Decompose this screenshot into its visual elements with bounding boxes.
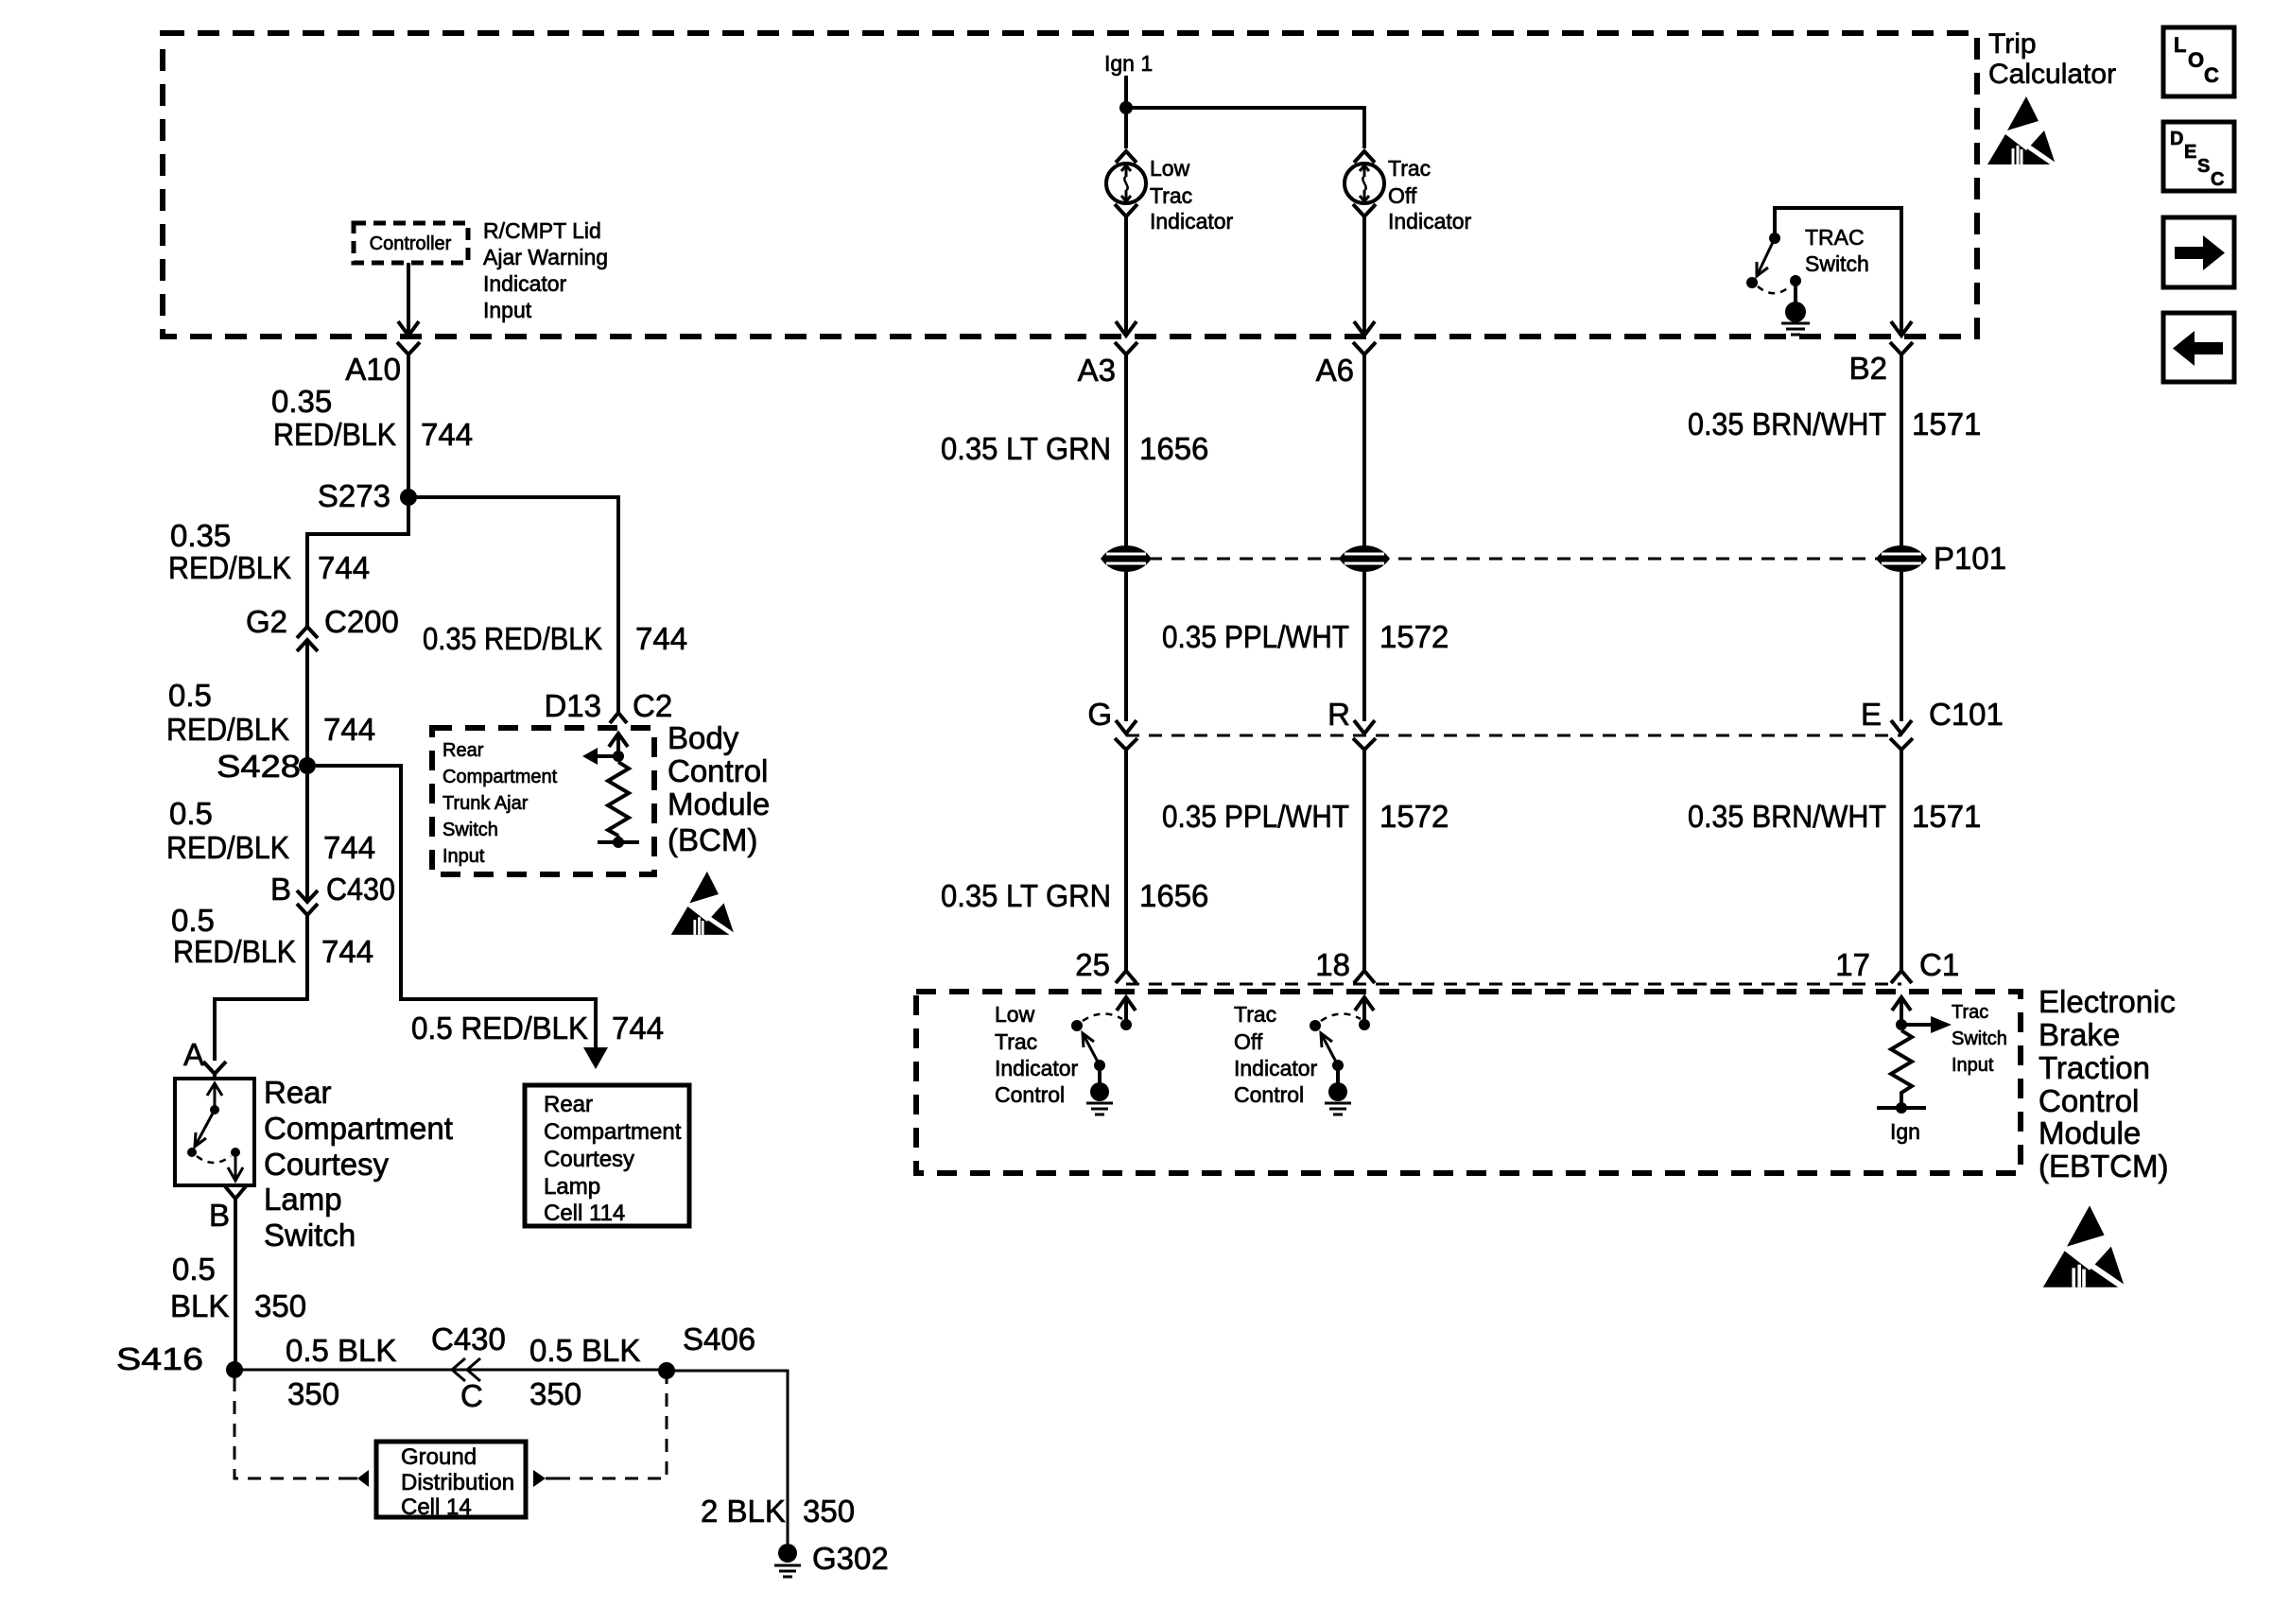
icon right arrow box (2163, 217, 2234, 287)
arrowhead at G (1116, 720, 1136, 734)
connector Y above pin 18 (1354, 971, 1375, 983)
svg-text:0.5 BLK: 0.5 BLK (286, 1333, 396, 1368)
lamp switch dashed throw arc (197, 1156, 231, 1163)
ESD symbol (BCM) (671, 872, 737, 938)
svg-text:Rear: Rear (544, 1092, 593, 1117)
arrowhead at E (1891, 720, 1912, 734)
connector Y below C101 at G (1115, 738, 1137, 762)
svg-text:0.35 PPL/WHT: 0.35 PPL/WHT (1162, 799, 1349, 834)
connector Y below Low Trac lamp (1115, 204, 1137, 230)
label B C430 (270, 872, 395, 907)
svg-text:S416: S416 (116, 1341, 203, 1376)
svg-text:Ign: Ign (1890, 1119, 1920, 1144)
svg-text:1572: 1572 (1379, 619, 1449, 654)
label 0.5 RED/BLK 744 (above S428) (166, 678, 375, 747)
label Body Control Module (BCM) (668, 720, 770, 857)
svg-text:L: L (2174, 33, 2186, 57)
label 0.35 RED/BLK 744 (BCM branch) (423, 621, 687, 656)
svg-text:C430: C430 (326, 872, 395, 907)
svg-text:S273: S273 (318, 478, 390, 513)
Rear Compartment Courtesy Lamp Cell 114 box (525, 1085, 689, 1226)
BCM junction dot (613, 751, 624, 762)
svg-text:BLK: BLK (170, 1288, 229, 1323)
svg-text:744: 744 (323, 712, 375, 747)
svg-text:Lamp: Lamp (264, 1182, 342, 1217)
grommet P101 at A3 wire (1101, 545, 1152, 572)
svg-text:Input: Input (1952, 1055, 1994, 1076)
wire Ign 1 down (1124, 76, 1128, 148)
svg-text:(EBTCM): (EBTCM) (2039, 1149, 2168, 1183)
label Trac Off Indicator (1388, 156, 1472, 233)
svg-text:Module: Module (668, 786, 770, 821)
svg-text:Ground: Ground (401, 1444, 477, 1470)
grommet P101 at A6 wire (1339, 545, 1390, 572)
label Trac Switch Input (1952, 1002, 2007, 1076)
wire A3 P101 to C101 (1124, 572, 1128, 721)
connector Y below C101 at E (1890, 738, 1913, 762)
svg-text:1572: 1572 (1379, 799, 1449, 834)
svg-text:Controller: Controller (370, 233, 452, 254)
svg-text:E: E (1861, 697, 1882, 732)
svg-text:G: G (1087, 697, 1112, 732)
low trac switch stub dot (1120, 1019, 1132, 1030)
svg-text:17: 17 (1835, 947, 1870, 982)
lamp switch output arrow down (228, 1152, 243, 1181)
svg-text:Compartment: Compartment (264, 1111, 453, 1146)
trac switch input arrow right (1901, 1016, 1952, 1033)
svg-text:1656: 1656 (1139, 878, 1208, 913)
label 0.35 RED/BLK 744 (A10) (271, 384, 473, 452)
connector Y above Trac Off lamp (1354, 151, 1375, 163)
svg-text:R/CMPT Lid: R/CMPT Lid (483, 218, 601, 243)
connector Y below Trac Off lamp (1353, 204, 1376, 230)
svg-text:RED/BLK: RED/BLK (173, 934, 296, 969)
svg-text:Trac: Trac (1150, 183, 1192, 208)
BCM resistor bottom node (598, 836, 639, 848)
label Rear Compartment Courtesy Lamp Cell 114 (544, 1092, 682, 1226)
svg-text:Trac: Trac (1234, 1002, 1276, 1027)
svg-text:S428: S428 (217, 749, 301, 784)
dashed wire S416 to ground distribution (234, 1378, 346, 1478)
TRAC switch contact dot (1746, 277, 1758, 288)
lamp Low Trac Indicator (1106, 164, 1146, 203)
label 0.5 BLK 350 (left segment) (286, 1333, 396, 1411)
svg-text:350: 350 (254, 1288, 306, 1323)
svg-text:350: 350 (529, 1376, 581, 1411)
svg-text:D13: D13 (544, 688, 601, 723)
wire B to S416 (234, 1199, 237, 1363)
svg-text:Body: Body (668, 720, 739, 755)
EBTCM dashed box (916, 992, 2021, 1173)
svg-text:C430: C430 (431, 1322, 506, 1356)
svg-text:RED/BLK: RED/BLK (168, 550, 291, 585)
svg-text:Switch: Switch (442, 820, 498, 840)
svg-text:Traction: Traction (2039, 1050, 2150, 1085)
label Trip Calculator (1988, 28, 2116, 90)
label Electronic Brake Traction Control Module (EBTCM) (2039, 984, 2176, 1183)
svg-text:Courtesy: Courtesy (264, 1147, 390, 1182)
arrowhead at A3 (1116, 321, 1136, 336)
ground G302 (774, 1544, 801, 1577)
svg-text:2 BLK: 2 BLK (701, 1494, 786, 1529)
low trac switch left contact dot (1071, 1020, 1083, 1031)
lamp switch right contact dot (231, 1148, 240, 1157)
svg-text:Calculator: Calculator (1988, 59, 2116, 90)
pin 17 stub arrow (1892, 997, 1911, 1025)
svg-text:Indicator: Indicator (1234, 1056, 1318, 1080)
label 0.35 BRN/WHT 1571 (upper) (1688, 406, 1981, 441)
svg-text:C101: C101 (1929, 697, 2004, 732)
label 0.5 RED/BLK 744 (cell branch) (411, 1011, 664, 1045)
label 0.35 LT GRN 1656 (lower) (941, 878, 1208, 913)
svg-text:D: D (2170, 129, 2183, 149)
connector C430 (inline ground wire) (452, 1358, 480, 1381)
trac off switch pivot and plunger (1328, 1060, 1347, 1101)
svg-text:18: 18 (1315, 947, 1350, 982)
svg-text:A10: A10 (345, 352, 401, 387)
wire C200 to S428 (305, 640, 309, 758)
connector line C1 (1126, 983, 1901, 986)
svg-text:0.5: 0.5 (171, 903, 215, 938)
wire B2 P101 to C101 (1900, 572, 1903, 721)
svg-text:Trunk Ajar: Trunk Ajar (442, 793, 529, 814)
connector Y at pin C2 (610, 713, 627, 723)
svg-text:Ign 1: Ign 1 (1104, 51, 1153, 76)
svg-text:Module: Module (2039, 1115, 2141, 1150)
label 0.5 RED/BLK 744 (above C430) (166, 796, 375, 865)
low trac switch pivot and plunger (1090, 1060, 1109, 1101)
svg-text:Compartment: Compartment (442, 767, 558, 787)
low trac switch arm (1083, 1033, 1100, 1065)
connector Y below C101 at R (1353, 738, 1376, 762)
wire G to pin 25 (1124, 762, 1128, 971)
icon LOC box (2163, 27, 2234, 96)
svg-text:Input: Input (483, 298, 532, 322)
arrowhead at A6 (1354, 321, 1375, 336)
wire S273 jog down-left (307, 506, 408, 627)
connector line C101 (1126, 734, 1901, 737)
svg-text:Low: Low (1150, 156, 1190, 181)
lamp Trac Off Indicator (1345, 164, 1384, 203)
svg-text:1571: 1571 (1912, 799, 1981, 834)
svg-text:Compartment: Compartment (544, 1119, 682, 1145)
svg-text:RED/BLK: RED/BLK (166, 830, 289, 865)
svg-text:0.35 RED/BLK: 0.35 RED/BLK (423, 621, 602, 656)
label 0.5 BLK 350 (170, 1252, 306, 1323)
svg-text:TRAC: TRAC (1805, 225, 1865, 250)
svg-text:RED/BLK: RED/BLK (166, 712, 289, 747)
svg-text:25: 25 (1075, 947, 1110, 982)
svg-text:744: 744 (635, 621, 687, 656)
svg-text:Low: Low (995, 1002, 1035, 1027)
label 0.35 BRN/WHT 1571 (lower) (1688, 799, 1981, 834)
label 0.35 LT GRN 1656 (upper) (941, 431, 1208, 466)
svg-text:A3: A3 (1078, 353, 1116, 388)
resistor (BCM trunk ajar input) (608, 762, 629, 836)
svg-text:Trac: Trac (1388, 156, 1431, 181)
connector Y at pin A (203, 1062, 226, 1079)
svg-text:744: 744 (318, 550, 370, 585)
svg-text:744: 744 (421, 417, 473, 452)
TRAC switch arm (1757, 238, 1775, 276)
wire Controller to A10 (407, 263, 410, 333)
svg-text:Trip: Trip (1988, 28, 2037, 60)
svg-text:744: 744 (612, 1011, 664, 1045)
wire S428 to C430 (305, 774, 309, 902)
svg-text:0.35 PPL/WHT: 0.35 PPL/WHT (1162, 619, 1349, 654)
svg-text:B2: B2 (1849, 351, 1887, 386)
connector C200 (Y and arrow up) (297, 627, 318, 651)
svg-text:0.35 BRN/WHT: 0.35 BRN/WHT (1688, 799, 1886, 834)
svg-text:C200: C200 (324, 604, 399, 639)
svg-text:O: O (2188, 48, 2204, 72)
connector Y at pin A6 (1353, 342, 1376, 368)
svg-text:744: 744 (323, 830, 375, 865)
svg-text:Trac: Trac (995, 1029, 1037, 1054)
wire C430 to lamp switch jog (215, 915, 307, 1061)
connector Y above pin 25 (1116, 971, 1136, 983)
Controller dashed box (354, 223, 468, 263)
svg-text:Control: Control (668, 753, 768, 788)
arrowhead at A10 (398, 321, 419, 336)
connector Y at pin A3 (1115, 342, 1137, 368)
connector C430 (arrow down and Y) (297, 890, 318, 915)
junction dot Ign 1 (1119, 101, 1133, 114)
Rear Compartment Courtesy Lamp Switch box (175, 1079, 254, 1185)
svg-text:0.5: 0.5 (168, 678, 212, 713)
dashed wire S406 to ground distribution (557, 1378, 667, 1478)
svg-text:Switch: Switch (264, 1218, 356, 1253)
grommet P101 at B2 wire (1876, 545, 1927, 572)
svg-text:0.35: 0.35 (271, 384, 332, 419)
svg-text:Rear: Rear (264, 1075, 332, 1110)
svg-text:B: B (270, 872, 291, 907)
svg-text:Ajar Warning: Ajar Warning (483, 245, 608, 269)
svg-text:C: C (2211, 169, 2224, 190)
label Low Trac Indicator Control (995, 1002, 1079, 1107)
svg-text:C2: C2 (633, 688, 672, 723)
splice S428 (299, 757, 316, 774)
branch S428 to courtesy lamp cell (316, 766, 596, 1051)
svg-text:Control: Control (1234, 1082, 1304, 1107)
pin 18 stub arrow (1355, 997, 1374, 1022)
trac switch input junction dot (1896, 1019, 1907, 1030)
wire R to pin 18 (1362, 762, 1366, 971)
label Trac Off Indicator Control (1234, 1002, 1318, 1107)
svg-text:Input: Input (442, 846, 485, 867)
trac off switch dashed arc (1321, 1013, 1361, 1021)
connector Y at pin B (225, 1186, 246, 1199)
splice S273 (400, 489, 417, 506)
TRAC switch ground (1781, 323, 1810, 335)
wire A6 inside trip calc (1362, 230, 1366, 333)
svg-text:744: 744 (321, 934, 373, 969)
svg-text:Trac: Trac (1952, 1002, 1988, 1023)
svg-text:0.5: 0.5 (172, 1252, 216, 1287)
label 17 C1 (1835, 947, 1959, 982)
TRAC switch frame wire (1775, 208, 1901, 333)
lamp switch left contact dot (187, 1148, 197, 1157)
svg-text:P101: P101 (1934, 541, 2006, 576)
wire S406 to G302 (667, 1371, 788, 1544)
BCM dashed box (432, 728, 654, 874)
svg-text:1656: 1656 (1139, 431, 1208, 466)
svg-text:Rear: Rear (442, 740, 484, 761)
trac off switch arm (1321, 1033, 1338, 1065)
wire E to pin 17 (1900, 762, 1903, 971)
svg-text:S406: S406 (683, 1322, 755, 1356)
svg-text:A: A (183, 1037, 204, 1072)
Trip Calculator module dashed box (163, 33, 1977, 337)
svg-text:Indicator: Indicator (483, 271, 567, 296)
label 0.35 PPL/WHT 1572 (lower) (1162, 799, 1449, 834)
svg-text:0.35 LT GRN: 0.35 LT GRN (941, 431, 1111, 466)
label Rear Compartment Courtesy Lamp Switch (264, 1075, 453, 1253)
wire A10 to S273 (407, 368, 410, 491)
svg-text:C1: C1 (1919, 947, 1959, 982)
svg-text:R: R (1327, 697, 1350, 732)
TRAC switch pivot dot (1769, 233, 1780, 244)
svg-text:1571: 1571 (1912, 406, 1981, 441)
svg-text:Brake: Brake (2039, 1017, 2120, 1052)
svg-text:C: C (460, 1378, 483, 1413)
svg-text:C: C (2204, 63, 2219, 87)
svg-text:Distribution: Distribution (401, 1470, 514, 1495)
lamp switch arm (195, 1110, 215, 1147)
label E C101 (1861, 697, 2004, 732)
arrow into ground distribution (left) (346, 1470, 369, 1487)
label 0.5 BLK 350 (right segment) (529, 1333, 640, 1411)
connector Y at pin A10 (397, 342, 420, 368)
connector Y above Low Trac lamp (1116, 151, 1136, 163)
label G2 C200 (246, 604, 399, 639)
wire A3 to P101 (1124, 368, 1128, 545)
label 0.35 RED/BLK 744 (above C200) (168, 518, 370, 585)
low trac switch dashed arc (1083, 1013, 1122, 1021)
wire S273 to BCM branch (408, 497, 618, 713)
svg-text:350: 350 (287, 1376, 339, 1411)
label 0.35 PPL/WHT 1572 (upper) (1162, 619, 1449, 654)
wire A6 to P101 (1362, 368, 1366, 545)
connector Y at pin B2 (1890, 342, 1913, 368)
trac switch input bottom node Ign (1877, 1093, 1926, 1114)
TRAC switch plunger (1785, 275, 1806, 322)
arrowhead into cell 114 box (583, 1047, 608, 1069)
lamp switch up arrow (207, 1083, 222, 1110)
BCM signal arrow left (582, 748, 618, 765)
svg-text:G302: G302 (812, 1541, 889, 1576)
ESD symbol (Trip Calculator) (1987, 96, 2058, 167)
label Low Trac Indicator (1150, 156, 1234, 233)
svg-text:Courtesy: Courtesy (544, 1147, 634, 1172)
splice S406 (658, 1362, 675, 1379)
svg-text:Switch: Switch (1805, 251, 1869, 276)
wire Ign 1 to Trac Off branch (1126, 108, 1364, 148)
dashed pass-through line P101 (1126, 558, 1901, 561)
label 2 BLK 350 (701, 1494, 855, 1529)
svg-text:Control: Control (995, 1082, 1065, 1107)
svg-text:0.5 RED/BLK: 0.5 RED/BLK (411, 1011, 588, 1045)
resistor (trac switch input) (1891, 1030, 1912, 1097)
label Rear Compartment Trunk Ajar Switch Input (442, 740, 558, 867)
svg-text:E: E (2184, 142, 2196, 163)
wire A6 P101 to C101 (1362, 572, 1366, 721)
pin 25 stub arrow (1117, 997, 1136, 1022)
svg-text:Indicator: Indicator (1150, 209, 1234, 233)
svg-text:Off: Off (1388, 183, 1417, 208)
svg-text:Cell 14: Cell 14 (401, 1494, 472, 1520)
svg-text:S: S (2197, 156, 2210, 177)
trac off switch ground (1325, 1103, 1351, 1114)
svg-text:0.5: 0.5 (169, 796, 213, 831)
svg-text:Lamp: Lamp (544, 1174, 600, 1200)
wire B2 to P101 (1900, 368, 1903, 545)
svg-text:0.35 LT GRN: 0.35 LT GRN (941, 878, 1111, 913)
label Ground Distribution Cell 14 (401, 1444, 514, 1520)
BCM input arrow (609, 734, 628, 756)
ESD symbol (EBTCM) (2043, 1205, 2128, 1290)
svg-text:0.5 BLK: 0.5 BLK (529, 1333, 640, 1368)
connector Y above pin 17 (1891, 971, 1912, 983)
label TRAC Switch (1805, 225, 1869, 276)
arrowhead at R (1354, 720, 1375, 734)
svg-text:350: 350 (803, 1494, 855, 1529)
svg-text:0.35: 0.35 (170, 518, 231, 553)
arrow into ground distribution (right) (533, 1470, 557, 1487)
Ground Distribution Cell 14 box (376, 1442, 526, 1517)
icon DESC box (2163, 122, 2234, 191)
svg-text:B: B (209, 1198, 230, 1233)
label R/CMPT Lid Ajar Warning Indicator Input (483, 218, 608, 322)
splice S416 (226, 1361, 243, 1378)
low trac switch ground (1086, 1103, 1113, 1114)
label D13 C2 (544, 688, 672, 723)
wire S416 to S406 (234, 1369, 667, 1372)
svg-text:0.35 BRN/WHT: 0.35 BRN/WHT (1688, 406, 1886, 441)
svg-text:Indicator: Indicator (995, 1056, 1079, 1080)
trac off switch stub dot (1359, 1019, 1370, 1030)
arrowhead at B2 (1891, 321, 1912, 336)
TRAC switch dashed throw arc (1758, 285, 1791, 293)
svg-text:Off: Off (1234, 1029, 1263, 1054)
label 0.5 RED/BLK 744 (above jog) (171, 903, 373, 969)
svg-text:Switch: Switch (1952, 1028, 2007, 1049)
lamp switch pivot dot (210, 1105, 219, 1114)
svg-text:(BCM): (BCM) (668, 822, 757, 857)
wire A3 inside trip calc (1124, 230, 1128, 333)
svg-text:A6: A6 (1316, 353, 1354, 388)
svg-text:Cell 114: Cell 114 (544, 1201, 625, 1226)
svg-text:Control: Control (2039, 1083, 2139, 1118)
icon left arrow box (2163, 313, 2234, 382)
svg-text:RED/BLK: RED/BLK (273, 417, 396, 452)
svg-text:Indicator: Indicator (1388, 209, 1472, 233)
svg-text:Electronic: Electronic (2039, 984, 2176, 1019)
trac off switch left contact dot (1310, 1020, 1321, 1031)
svg-text:G2: G2 (246, 604, 287, 639)
